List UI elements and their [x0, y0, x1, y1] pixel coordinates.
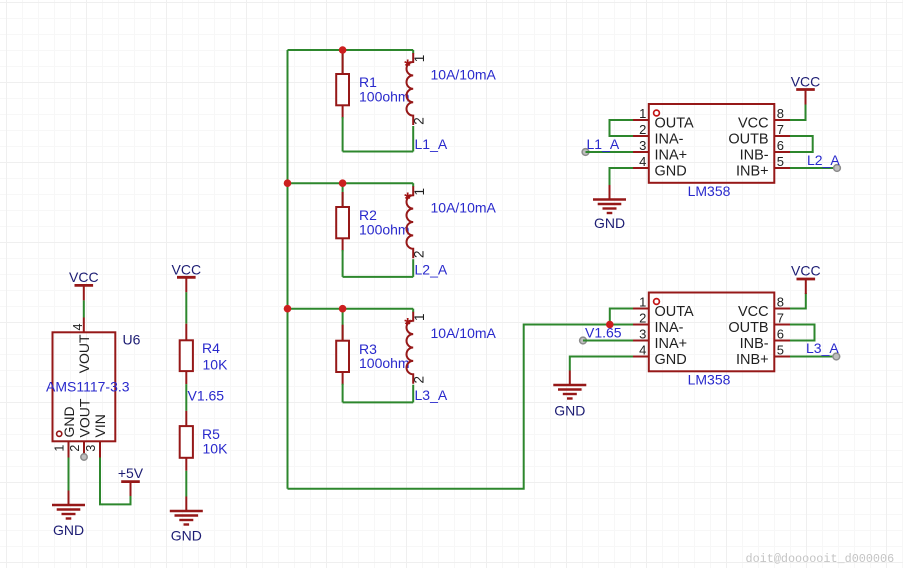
R4 value label 10K	[203, 356, 229, 372]
svg-text:100ohm: 100ohm	[359, 221, 410, 237]
wire L1_A to U1 INA+	[586, 151, 634, 153]
regulator U6 AMS1117-3.3	[53, 318, 116, 458]
svg-text:doit@doooooit_d000006: doit@doooooit_d000006	[746, 552, 895, 566]
wire row 2 top rail	[288, 182, 414, 184]
resistor R4	[180, 324, 193, 384]
U2 pin 1 name OUTA	[655, 304, 695, 320]
U2 pin number 3	[639, 326, 646, 341]
U1 pin number 2	[639, 122, 646, 137]
wire left bus vertical	[287, 50, 289, 489]
R3 value label 100ohm	[359, 355, 410, 371]
U2 pin number 4	[639, 342, 646, 357]
U1 pin number 8	[777, 106, 784, 121]
L2 value label 10A/10mA	[431, 200, 497, 216]
svg-text:2: 2	[639, 310, 646, 325]
svg-text:1: 1	[412, 313, 427, 321]
svg-text:100ohm: 100ohm	[359, 355, 410, 371]
svg-text:10A/10mA: 10A/10mA	[431, 67, 497, 83]
svg-text:10A/10mA: 10A/10mA	[431, 325, 497, 341]
U2 pin number 2	[639, 310, 646, 325]
svg-text:2: 2	[412, 250, 427, 258]
svg-text:GND: GND	[594, 215, 625, 231]
U6 pin 2 unconnected port	[81, 454, 87, 460]
wire R2 bottom to rail	[342, 250, 344, 277]
svg-text:4: 4	[71, 324, 85, 331]
svg-text:*: *	[404, 56, 411, 76]
junction R1 top node	[339, 46, 347, 54]
L3 pin number 2	[412, 376, 427, 384]
svg-text:1: 1	[412, 188, 427, 196]
svg-text:10K: 10K	[203, 356, 229, 372]
svg-text:VCC: VCC	[791, 262, 821, 278]
svg-text:7: 7	[777, 310, 784, 325]
L2 pin number 1	[412, 188, 427, 196]
U6 pin number 3	[84, 445, 98, 452]
U1 pin 5 name INB+	[736, 163, 769, 179]
svg-text:6: 6	[777, 326, 784, 341]
U1 pin number 1	[639, 106, 646, 121]
junction on left bus row 2	[284, 179, 292, 187]
wire V1.65 to U2 INA+	[583, 340, 633, 342]
svg-text:INA+: INA+	[655, 336, 688, 352]
svg-text:R4: R4	[202, 340, 220, 356]
net label L3_A	[806, 340, 839, 356]
U1 pin number 4	[639, 154, 646, 169]
resistor R3	[336, 325, 349, 385]
svg-text:OUTB: OUTB	[728, 320, 768, 336]
net label L2_A	[415, 261, 448, 277]
svg-text:OUTA: OUTA	[655, 304, 695, 320]
R2 name label	[359, 207, 377, 223]
svg-text:3: 3	[84, 445, 98, 452]
U1 pin 8 name VCC	[738, 115, 769, 131]
svg-text:GND: GND	[655, 352, 687, 368]
junction U2 INA- input node	[606, 321, 614, 329]
U2 pin number 7	[777, 310, 784, 325]
wire U2 GND pin to ground	[570, 357, 633, 371]
ground GND (divider)	[170, 497, 203, 544]
L1 pin number 1	[412, 55, 427, 63]
U2 pin 7 name OUTB	[728, 320, 768, 336]
net port V1.65 (U2)	[580, 337, 587, 344]
wire row 1 bottom rail	[343, 151, 414, 153]
net port L2_A	[834, 165, 841, 172]
ground GND (U2)	[553, 371, 586, 419]
U2 pin 8 name VCC	[738, 304, 769, 320]
U6 pin 4 name VOUT	[76, 334, 92, 373]
U2 pin 4 name GND	[655, 352, 687, 368]
svg-text:INA-: INA-	[655, 131, 684, 147]
L1 value label 10A/10mA	[431, 67, 497, 83]
svg-text:1: 1	[412, 55, 427, 63]
wire U2 INB+ to L3_A	[790, 356, 836, 358]
L1 pin number 2	[412, 117, 427, 125]
ground GND (U6 pin 1)	[52, 491, 85, 539]
net label L1_A	[415, 136, 448, 152]
U1 pin 7 name OUTB	[728, 131, 768, 147]
U2 pin 2 name INA-	[655, 320, 684, 336]
svg-text:OUTB: OUTB	[728, 131, 768, 147]
svg-text:L3_A: L3_A	[806, 340, 839, 356]
U2 pin 6 name INB-	[740, 336, 769, 352]
U1 value label LM358	[688, 183, 731, 199]
wire L1 bottom to rail	[412, 126, 414, 152]
wire VCC to R4	[185, 292, 187, 324]
svg-text:VIN: VIN	[92, 414, 108, 437]
wire U6 pin 3 to +5V	[100, 458, 131, 505]
wire row 1 top rail	[288, 49, 414, 51]
U6 pin number 1	[53, 445, 67, 452]
svg-text:INB-: INB-	[740, 147, 769, 163]
wire L3 bottom to rail	[412, 385, 414, 403]
svg-text:3: 3	[639, 138, 646, 153]
wire R5 to GND	[185, 471, 187, 497]
op-amp U2 LM358 body	[633, 293, 790, 372]
svg-text:+5V: +5V	[118, 465, 144, 481]
wire U1 OUTA to INA- feedback loop	[610, 120, 634, 136]
svg-text:GND: GND	[61, 406, 77, 437]
L3 pin number 1	[412, 313, 427, 321]
svg-text:5: 5	[777, 154, 784, 169]
svg-text:U6: U6	[123, 332, 141, 348]
R1 value label 100ohm	[359, 88, 410, 104]
U2 pin number 8	[777, 294, 784, 309]
U6 value label AMS1117-3.3	[46, 379, 130, 395]
wire U2 OUTB to INB- feedback loop	[790, 325, 815, 341]
svg-text:VCC: VCC	[69, 269, 99, 285]
net port L1_A	[582, 149, 589, 156]
svg-text:VCC: VCC	[738, 304, 769, 320]
R5 name label	[202, 426, 220, 442]
wire row 2 bottom rail	[343, 276, 414, 278]
wire U2 OUTA to INA- feedback loop	[610, 309, 633, 325]
svg-text:INB+: INB+	[736, 163, 769, 179]
svg-text:VCC: VCC	[172, 261, 202, 277]
wire U2 VCC pin to VCC	[790, 293, 806, 309]
wire row 3 bottom rail	[343, 401, 414, 403]
L1 polarity mark	[404, 56, 411, 76]
net label L1_A	[587, 136, 620, 152]
svg-text:10A/10mA: 10A/10mA	[431, 200, 497, 216]
watermark text	[746, 552, 895, 566]
U2 pin 3 name INA+	[655, 336, 688, 352]
wire U1 OUTB to INB- feedback loop	[790, 136, 813, 152]
resistor R2	[336, 192, 349, 251]
op-amp U1 LM358 body	[633, 104, 790, 183]
svg-text:VOUT: VOUT	[77, 398, 93, 437]
svg-text:V1.65: V1.65	[188, 387, 225, 403]
U2 pin 5 name INB+	[736, 352, 769, 368]
inductor L2	[407, 183, 414, 258]
L3 polarity mark	[404, 314, 411, 334]
svg-text:AMS1117-3.3: AMS1117-3.3	[46, 379, 130, 395]
wire VCC to U6 pin 4	[83, 300, 85, 317]
svg-text:L3_A: L3_A	[415, 387, 448, 403]
U1 pin number 3	[639, 138, 646, 153]
R2 value label 100ohm	[359, 221, 410, 237]
wire U1 VCC pin to VCC	[790, 105, 806, 121]
U1 pin 1 name OUTA	[655, 115, 695, 131]
power +5V net symbol	[118, 465, 144, 496]
U1 pin number 7	[777, 122, 784, 137]
net label V1.65 (U2)	[585, 324, 622, 340]
svg-text:OUTA: OUTA	[655, 115, 695, 131]
power VCC net symbol (U6 input)	[69, 269, 99, 301]
svg-text:GND: GND	[554, 403, 585, 419]
svg-text:INA+: INA+	[655, 147, 688, 163]
L3 value label 10A/10mA	[431, 325, 497, 341]
svg-text:10K: 10K	[203, 441, 229, 457]
power VCC net symbol (U2)	[791, 262, 821, 294]
svg-text:1: 1	[639, 106, 646, 121]
svg-text:*: *	[404, 189, 411, 209]
svg-text:6: 6	[777, 138, 784, 153]
inductor L1	[407, 50, 414, 125]
svg-text:GND: GND	[655, 163, 687, 179]
wire row 3 top rail	[288, 308, 414, 310]
svg-text:8: 8	[777, 106, 784, 121]
junction on left bus row 3	[284, 305, 292, 313]
power VCC net symbol (divider)	[172, 261, 202, 292]
svg-text:8: 8	[777, 294, 784, 309]
L2 polarity mark	[404, 189, 411, 209]
svg-text:4: 4	[639, 154, 646, 169]
svg-text:2: 2	[639, 122, 646, 137]
R1 name label	[359, 74, 377, 90]
svg-text:L1_A: L1_A	[587, 136, 620, 152]
svg-text:GND: GND	[171, 528, 202, 544]
svg-text:L2_A: L2_A	[415, 261, 448, 277]
svg-text:4: 4	[639, 342, 646, 357]
svg-text:2: 2	[68, 445, 82, 452]
wire U6 pin 1 to GND	[68, 458, 70, 491]
svg-text:LM358: LM358	[688, 372, 731, 388]
U6 pin 3 name VIN	[92, 414, 108, 437]
svg-text:VCC: VCC	[791, 73, 821, 89]
junction R2 top node	[339, 179, 347, 187]
U6 pin number 2	[68, 445, 82, 452]
svg-text:INB-: INB-	[740, 336, 769, 352]
R5 value label 10K	[203, 441, 229, 457]
U2 value label LM358	[688, 372, 731, 388]
wire R1 bottom to rail	[342, 117, 344, 152]
wire R3 top node to resistor	[342, 309, 344, 341]
U6 reference designator label	[123, 332, 141, 348]
svg-text:2: 2	[412, 376, 427, 384]
svg-text:GND: GND	[53, 522, 84, 538]
svg-text:100ohm: 100ohm	[359, 88, 410, 104]
U2 pin number 1	[639, 294, 646, 309]
inductor L3	[407, 309, 414, 384]
U1 pin number 5	[777, 154, 784, 169]
U2 pin number 6	[777, 326, 784, 341]
resistor R1	[336, 53, 349, 118]
ground GND (U1)	[593, 185, 626, 231]
svg-text:V1.65: V1.65	[585, 324, 622, 340]
svg-text:5: 5	[777, 342, 784, 357]
wire L2 bottom to rail	[412, 259, 414, 277]
U1 pin number 6	[777, 138, 784, 153]
svg-text:LM358: LM358	[688, 183, 731, 199]
svg-text:VCC: VCC	[738, 115, 769, 131]
U1 pin 6 name INB-	[740, 147, 769, 163]
wire U1 GND pin to ground	[610, 168, 634, 185]
svg-text:*: *	[404, 314, 411, 334]
U1 pin 3 name INA+	[655, 147, 688, 163]
wire R3 bottom to rail	[342, 384, 344, 403]
wire U1 INB+ to L2_A	[790, 167, 837, 169]
power VCC net symbol (U1)	[791, 73, 821, 104]
net label L2_A	[807, 152, 840, 168]
L2 pin number 2	[412, 250, 427, 258]
svg-text:L1_A: L1_A	[415, 136, 448, 152]
svg-text:1: 1	[639, 294, 646, 309]
net label L3_A	[415, 387, 448, 403]
U6 pin 2 name VOUT	[77, 398, 93, 437]
R3 name label	[359, 341, 377, 357]
resistor R5	[180, 411, 193, 471]
svg-text:1: 1	[53, 445, 67, 452]
svg-text:L2_A: L2_A	[807, 152, 840, 168]
net label V1.65 (divider)	[188, 387, 225, 403]
svg-text:INA-: INA-	[655, 320, 684, 336]
wire R2 top node to resistor	[342, 183, 344, 207]
U1 pin 4 name GND	[655, 163, 687, 179]
svg-text:3: 3	[639, 326, 646, 341]
wire bottom bus to op-amp U2 input	[288, 325, 610, 489]
R4 name label	[202, 340, 220, 356]
svg-text:7: 7	[777, 122, 784, 137]
U2 pin number 5	[777, 342, 784, 357]
net port L3_A	[833, 353, 840, 360]
svg-text:2: 2	[412, 117, 427, 125]
junction R3 top node	[339, 305, 347, 313]
wire R1 top node to resistor	[342, 50, 344, 74]
svg-text:VOUT: VOUT	[76, 334, 92, 373]
U1 pin 2 name INA-	[655, 131, 684, 147]
U6 pin 1 name GND	[61, 406, 77, 437]
U6 pin number 4	[71, 324, 85, 331]
wire R4 to R5, node V1.65	[185, 384, 187, 411]
svg-text:INB+: INB+	[736, 352, 769, 368]
